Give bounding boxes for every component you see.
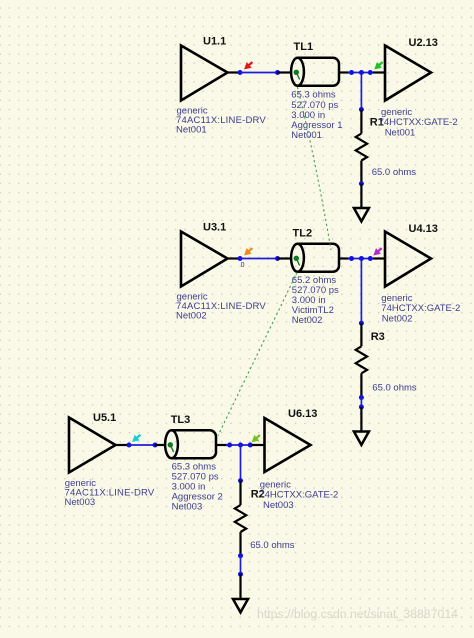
wire into TL2 (278, 257, 292, 259)
U5.1 properties text (65, 478, 155, 508)
U4.13 properties text (381, 293, 460, 324)
second node dot below R2 (238, 572, 243, 577)
svg-text:Net003: Net003 (263, 500, 294, 511)
svg-text:U3.1: U3.1 (203, 221, 226, 233)
svg-text:R3: R3 (371, 331, 385, 343)
TL2 pin marker (green) (294, 256, 300, 266)
wire node to TL2 (240, 258, 278, 260)
transmission line TL3 (165, 430, 216, 458)
svg-text:74HCTXX:GATE-2: 74HCTXX:GATE-2 (259, 489, 338, 500)
wire into U2.13 (373, 71, 385, 73)
wire between R2 nodes (240, 556, 242, 575)
svg-text:Net002: Net002 (292, 315, 323, 326)
svg-text:U1.1: U1.1 (203, 35, 226, 47)
resistor R2 (235, 481, 246, 556)
node dot at TL1 input (275, 70, 280, 75)
transmission line TL2 (291, 244, 339, 272)
buffer U4.13 (385, 232, 431, 287)
resistor R3 (356, 323, 367, 397)
svg-text:TL1: TL1 (294, 41, 314, 53)
junction dots near U6.13 (227, 443, 253, 448)
wire blue segment to U6.13 (226, 444, 252, 446)
svg-text:U5.1: U5.1 (93, 412, 116, 424)
node dot above R1 (359, 107, 364, 112)
svg-text:Net002: Net002 (382, 313, 413, 324)
U3.1 properties text (176, 292, 266, 322)
svg-text:Net001: Net001 (176, 125, 207, 136)
purple probe arrow at U4.13 input (374, 248, 382, 255)
node dot at U3.1 pin (238, 256, 243, 261)
node dot below R2 (238, 553, 243, 558)
svg-text:Net001: Net001 (385, 127, 416, 138)
buffer U1.1 (181, 46, 228, 101)
resistor R1 (356, 110, 367, 184)
wire into TL3 (155, 444, 165, 446)
wire stub down to R2 (240, 445, 242, 481)
node dot above R3 (359, 321, 364, 326)
svg-text:0: 0 (241, 262, 245, 269)
node dot at TL2 input (275, 256, 280, 261)
buffer U5.1 (69, 418, 116, 473)
U1.1 properties text (176, 106, 266, 136)
node dot below R1 (359, 181, 364, 186)
wire blue segment to U4.13 (348, 258, 373, 260)
wire TL1 output (340, 71, 350, 73)
svg-text:65.0 ohms: 65.0 ohms (372, 167, 417, 178)
ground (R2) (233, 599, 248, 612)
svg-text:Net003: Net003 (172, 502, 203, 513)
cyan probe arrow at U5.1 output (133, 435, 141, 442)
ground (R1) (354, 208, 369, 221)
wire between R3 nodes (360, 398, 362, 408)
WATERMARK (257, 607, 458, 621)
wire blue segment to U2.13 (348, 72, 373, 74)
ROW2 (176, 221, 460, 445)
second node dot below R3 (359, 405, 364, 410)
wire TL3 output (216, 444, 227, 446)
red probe arrow at U1.1 output (245, 62, 253, 69)
U6.13 properties text (259, 479, 338, 510)
wire U5.1 output to node (114, 444, 129, 446)
coupling line TL1-TL2 (298, 87, 332, 250)
wire into U4.13 (373, 257, 385, 259)
wire R3 to ground (360, 407, 362, 432)
wire TL2 output (340, 257, 350, 259)
node dot at U1.1 pin (238, 70, 243, 75)
coupling line TL2-TL3 (218, 273, 297, 436)
svg-text:https://blog.csdn.net/sinat_38: https://blog.csdn.net/sinat_38887014 (257, 607, 458, 621)
wire node to TL3 (129, 444, 155, 446)
svg-text:Net003: Net003 (65, 497, 96, 508)
ROW1 (176, 35, 458, 221)
svg-text:U4.13: U4.13 (409, 223, 438, 235)
ROW3 (65, 408, 339, 612)
svg-text:65.0 ohms: 65.0 ohms (372, 383, 417, 394)
buffer U6.13 (265, 418, 311, 472)
junction dots near U2.13 (349, 70, 373, 75)
node dot above R2 (238, 478, 243, 483)
COUPLING (218, 87, 331, 436)
wire R2 to ground (239, 574, 241, 599)
TL1 pin marker (green) (294, 70, 300, 80)
svg-text:65.0 ohms: 65.0 ohms (250, 540, 295, 551)
buffer U3.1 (181, 232, 228, 287)
svg-text:Net001: Net001 (291, 130, 322, 141)
node dot at U5.1 pin (127, 443, 132, 448)
svg-text:U2.13: U2.13 (409, 37, 438, 49)
TL2 properties text (292, 275, 339, 326)
green probe arrow at U2.13 input (375, 62, 383, 69)
svg-text:TL3: TL3 (171, 414, 191, 426)
svg-text:U6.13: U6.13 (288, 408, 317, 420)
wire stub down to R3 (360, 259, 362, 324)
svg-text:Net002: Net002 (176, 311, 207, 322)
TL3 pin marker (green) (168, 442, 174, 452)
wire stub down to R1 (360, 73, 362, 110)
junction dots near U4.13 (349, 256, 373, 261)
wire node to TL1 (240, 72, 278, 74)
wire U1.1 output to node (226, 71, 240, 73)
wire U3.1 output to node (226, 257, 240, 259)
wire into U6.13 (252, 444, 265, 446)
svg-text:TL2: TL2 (293, 228, 313, 240)
transmission line TL1 (291, 58, 339, 86)
wire into TL1 (278, 71, 292, 73)
ground (R3) (354, 432, 369, 445)
orange probe arrow at U3.1 output (245, 248, 253, 255)
node dot at TL3 input (153, 443, 158, 448)
yellow-green probe arrow at U6.13 input (252, 435, 260, 442)
TL1 properties text (291, 90, 342, 141)
TL3 properties text (172, 461, 223, 512)
buffer U2.13 (385, 46, 431, 101)
U2.13 properties text (379, 107, 458, 138)
node dot below R3 (359, 395, 364, 400)
wire R1 to ground (360, 184, 362, 208)
